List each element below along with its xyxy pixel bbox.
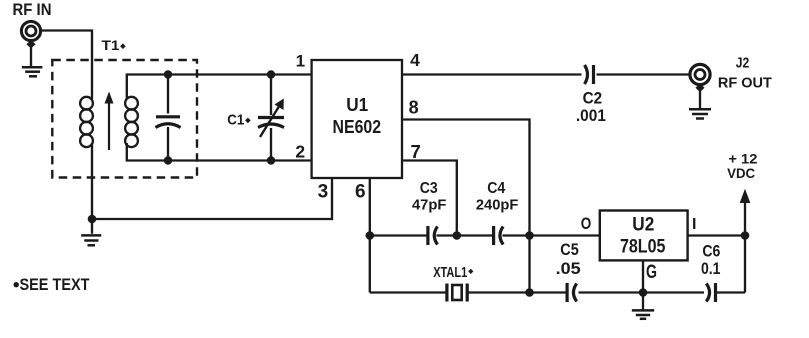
- svg-text:VDC: VDC: [727, 165, 755, 181]
- svg-text:C6: C6: [702, 242, 720, 261]
- svg-text:2: 2: [295, 141, 305, 161]
- svg-text:T1: T1: [102, 37, 120, 53]
- svg-text:J2: J2: [736, 56, 750, 72]
- svg-text:.05: .05: [556, 259, 581, 278]
- svg-text:240pF: 240pF: [476, 196, 519, 213]
- svg-text:C2: C2: [583, 88, 603, 107]
- svg-text:.001: .001: [576, 106, 606, 125]
- svg-text:47pF: 47pF: [412, 196, 447, 213]
- svg-text:7: 7: [410, 141, 420, 162]
- svg-text:U2: U2: [632, 214, 654, 235]
- svg-text:C1: C1: [227, 112, 244, 129]
- svg-text:4: 4: [410, 50, 420, 70]
- svg-text:78L05: 78L05: [620, 237, 666, 258]
- svg-text:G: G: [646, 262, 657, 283]
- svg-text:O: O: [581, 214, 592, 233]
- svg-text:XTAL1: XTAL1: [433, 265, 467, 281]
- svg-text:RF IN: RF IN: [13, 0, 52, 19]
- svg-text:8: 8: [409, 98, 419, 118]
- svg-text:I: I: [692, 216, 696, 233]
- svg-text:C3: C3: [420, 180, 438, 197]
- svg-text:0.1: 0.1: [701, 259, 721, 278]
- svg-text:+ 12: + 12: [728, 150, 757, 166]
- svg-text:1: 1: [296, 52, 305, 71]
- svg-text:C5: C5: [560, 240, 579, 259]
- svg-text:SEE TEXT: SEE TEXT: [20, 276, 90, 294]
- svg-text:U1: U1: [346, 95, 368, 115]
- svg-text:RF OUT: RF OUT: [718, 76, 772, 92]
- svg-text:6: 6: [355, 181, 366, 202]
- svg-text:NE602: NE602: [333, 117, 382, 137]
- svg-text:3: 3: [318, 181, 329, 202]
- svg-text:C4: C4: [487, 180, 505, 197]
